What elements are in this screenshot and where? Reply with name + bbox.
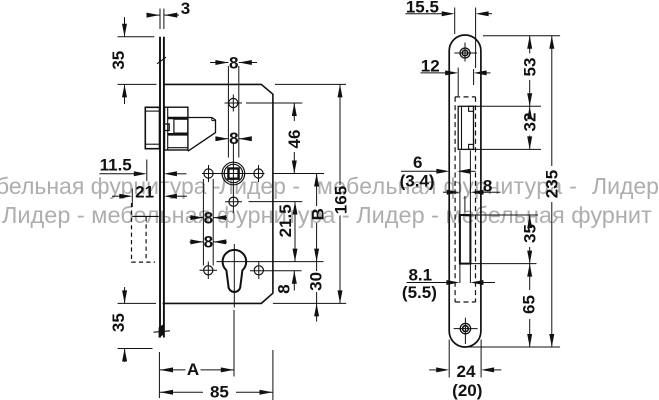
plate outline	[449, 35, 481, 347]
plate top hole h tick	[454, 52, 477, 54]
dim B line	[316, 174, 318, 207]
dim 65 line	[529, 264, 531, 290]
case dashed left	[454, 97, 456, 302]
latch body inner vertical	[167, 107, 169, 150]
svg-text:235: 235	[542, 170, 561, 198]
top screw hole v tick	[232, 95, 234, 112]
svg-text:B: B	[308, 208, 327, 220]
svg-text:53: 53	[520, 58, 539, 77]
dim 85 line	[160, 390, 173, 395]
dim 8latch right arrow	[239, 138, 250, 140]
top screw hole	[229, 98, 238, 107]
faceplate bottom break fill	[159, 324, 165, 339]
cyl left hole h tick	[200, 269, 218, 271]
svg-text:8: 8	[483, 177, 492, 196]
svg-text:21.5: 21.5	[276, 204, 295, 237]
dim 24 left arrow	[429, 369, 437, 371]
ext line case top right	[275, 83, 346, 85]
svg-text:8: 8	[204, 208, 213, 227]
ext line middle hole right	[249, 201, 303, 203]
plate bottom hole h tick	[454, 328, 478, 330]
svg-text:(3.4): (3.4)	[400, 171, 435, 190]
svg-text:165: 165	[332, 186, 351, 214]
dim 35bot arrow upper	[124, 287, 126, 303]
dim A line	[160, 367, 173, 372]
dim 85 right ext	[272, 350, 274, 400]
dim 24 right arrow	[481, 367, 494, 372]
middle hole h tick	[225, 201, 242, 203]
plate bottom hole v tick	[464, 318, 466, 344]
dim 8top right arrow	[239, 62, 257, 64]
svg-text:30: 30	[307, 272, 326, 291]
deadbolt inner dashed	[145, 217, 147, 260]
ext plate bottom right	[465, 346, 560, 348]
dim 8.1 line	[407, 282, 448, 284]
svg-text:6: 6	[413, 153, 422, 172]
dim A left ext	[158, 352, 160, 398]
svg-text:46: 46	[285, 130, 304, 149]
faceplate front line	[159, 37, 161, 338]
dim 8 hole2 right arrow	[213, 241, 227, 243]
latch cutout outline	[458, 106, 473, 149]
dim 15.5 ext lines	[454, 8, 456, 35]
dim 8slot left arrow	[443, 191, 448, 193]
latch tail outline	[188, 118, 216, 152]
euro cylinder profile	[223, 250, 247, 292]
svg-text:11.5: 11.5	[100, 156, 132, 175]
dim 35r line	[529, 215, 531, 220]
ext line top hole right	[246, 102, 302, 104]
svg-text:35: 35	[520, 224, 539, 243]
faceplate back line	[163, 37, 165, 338]
spindle horizontal centerline	[202, 173, 265, 175]
svg-text:3: 3	[181, 0, 190, 18]
dim 35top ext lower	[118, 83, 157, 85]
top screw hole h tick	[225, 102, 243, 104]
dim 21 ext	[131, 189, 133, 208]
svg-text:24: 24	[457, 362, 476, 381]
faceplate top break mark	[157, 57, 166, 64]
dim 15.5 right arrow	[476, 11, 489, 16]
dim 8 hole1 left arrow	[190, 217, 204, 219]
dim 3 ext lines	[159, 9, 161, 30]
dim 46 line	[293, 103, 295, 121]
deadbolt cutout ext left	[459, 151, 461, 215]
dim 15.5 line	[406, 13, 443, 15]
dim 8 hole1 right arrow	[213, 217, 227, 219]
case dashed right	[475, 97, 477, 302]
svg-text:21: 21	[135, 183, 154, 202]
dim 53 line	[529, 36, 531, 54]
cylinder vertical centerline	[233, 244, 235, 308]
lock case outline	[163, 84, 273, 303]
deadbolt cutout center stub	[464, 196, 466, 212]
faceplate bottom break tick	[154, 331, 171, 332]
latch head inner top line	[145, 110, 159, 112]
svg-text:8.1: 8.1	[408, 266, 432, 285]
deadbolt cutout ext left below	[459, 265, 461, 283]
dim 11.5 line	[99, 173, 135, 175]
spindle inner circle	[224, 164, 242, 182]
dim 6 line	[401, 170, 437, 172]
deadbolt bottom dashed	[132, 261, 156, 263]
cyl left hole	[204, 266, 213, 275]
dim 8 hole2 left arrow	[190, 241, 204, 243]
middle hole	[229, 197, 238, 206]
dim 12 right arrow	[474, 70, 487, 75]
ext latch cutout bottom right	[474, 148, 541, 150]
ext deadbolt bottom right	[470, 263, 536, 265]
spindle square hole	[228, 169, 238, 179]
svg-text:32: 32	[520, 113, 539, 132]
ext line cyl center right	[217, 261, 324, 263]
dim 32 line	[529, 106, 531, 108]
dim 21 line	[112, 195, 121, 197]
dim 11.5 right arrow	[164, 171, 177, 176]
latch guide tab	[164, 124, 169, 131]
dim 24 ext lines	[448, 340, 450, 378]
dim 8slot right arrow	[470, 190, 483, 195]
deadbolt thrown face dashed	[131, 203, 133, 263]
svg-text:65: 65	[520, 295, 539, 314]
ext line hub center right	[273, 173, 324, 175]
dim 21.5 line	[294, 202, 296, 262]
latch cutout inner line	[461, 106, 463, 149]
plate top hole v tick	[464, 43, 466, 62]
latch body band 2	[168, 133, 188, 136]
latch spring box	[174, 119, 188, 133]
cyl left hole v tick	[207, 262, 209, 280]
ext latch cutout top right	[474, 105, 541, 107]
spindle outer circle	[222, 162, 245, 185]
dim 3 right arrow	[164, 14, 179, 16]
dim 21 right arrow	[164, 194, 177, 199]
dim 235 line	[551, 36, 553, 166]
watermark line 1	[0, 173, 227, 200]
cyl right hole	[254, 266, 263, 275]
ext line case bottom right	[273, 302, 346, 304]
dim 8latch left arrow	[219, 138, 229, 140]
dim 8top ext lines	[227, 66, 229, 158]
plate top hole	[460, 48, 470, 58]
dim 3 left arrow	[147, 14, 160, 16]
dim 11.5 ext	[146, 160, 148, 182]
svg-text:8: 8	[204, 233, 213, 252]
svg-text:8: 8	[229, 129, 238, 148]
dim 6 right arrow	[457, 169, 470, 174]
case dashed bottom	[455, 301, 475, 303]
dim 35top arrow upper	[124, 17, 126, 37]
dim 35bot ext lower	[118, 348, 153, 350]
svg-text:8: 8	[229, 53, 238, 72]
svg-text:85: 85	[210, 382, 229, 400]
latch body band 1	[168, 117, 188, 120]
latch body outline	[165, 107, 188, 150]
dim A right ext	[233, 310, 235, 377]
deadbolt cutout ext right below	[469, 265, 471, 283]
svg-text:8: 8	[275, 284, 294, 293]
plate bottom hole	[460, 323, 470, 333]
dim 35top arrow lower	[124, 84, 126, 104]
hub right hole	[254, 169, 263, 178]
latch head outline	[145, 107, 159, 148]
svg-text:(5.5): (5.5)	[402, 283, 437, 302]
hub left hole	[204, 169, 213, 178]
deadbolt cutout ext right	[469, 151, 471, 215]
hub left hole v tick	[208, 165, 210, 182]
dim 35bot arrow lower	[124, 349, 126, 363]
dim 165 line	[339, 84, 341, 185]
dim 8 holes ext lines	[202, 179, 204, 266]
dim 12 line	[421, 72, 447, 74]
ext plate top right	[483, 35, 560, 37]
ext deadbolt top right	[470, 214, 538, 216]
svg-text:35: 35	[109, 51, 128, 70]
svg-text:A: A	[187, 360, 199, 379]
deadbolt top line	[132, 215, 159, 217]
dim 35bot ext upper	[118, 302, 157, 304]
spindle vertical centerline	[232, 144, 234, 214]
latch tail notch v	[211, 118, 213, 121]
latch body line 5	[168, 147, 188, 149]
case dashed top	[455, 96, 475, 98]
latch cutout notch bottom	[469, 144, 474, 149]
watermark line 2	[2, 202, 652, 229]
cyl right hole v tick	[258, 262, 260, 280]
dim 8cyl arrow	[293, 271, 295, 291]
latch cutout notch top	[469, 106, 474, 111]
dim 8.1 right arrow	[470, 280, 483, 285]
latch tail notch h	[212, 120, 216, 122]
latch head inner bottom line	[145, 143, 159, 145]
ext line cyl holes right	[250, 270, 302, 272]
dim 35top ext upper	[118, 36, 155, 38]
deadbolt cutout outline	[460, 215, 471, 264]
svg-text:35: 35	[109, 313, 128, 332]
dim 12 ext lines	[457, 68, 459, 97]
svg-text:(20): (20)	[452, 381, 482, 400]
hub right hole v tick	[258, 165, 260, 182]
dim 8top left arrow	[210, 62, 228, 64]
dim 30 line	[316, 262, 318, 271]
